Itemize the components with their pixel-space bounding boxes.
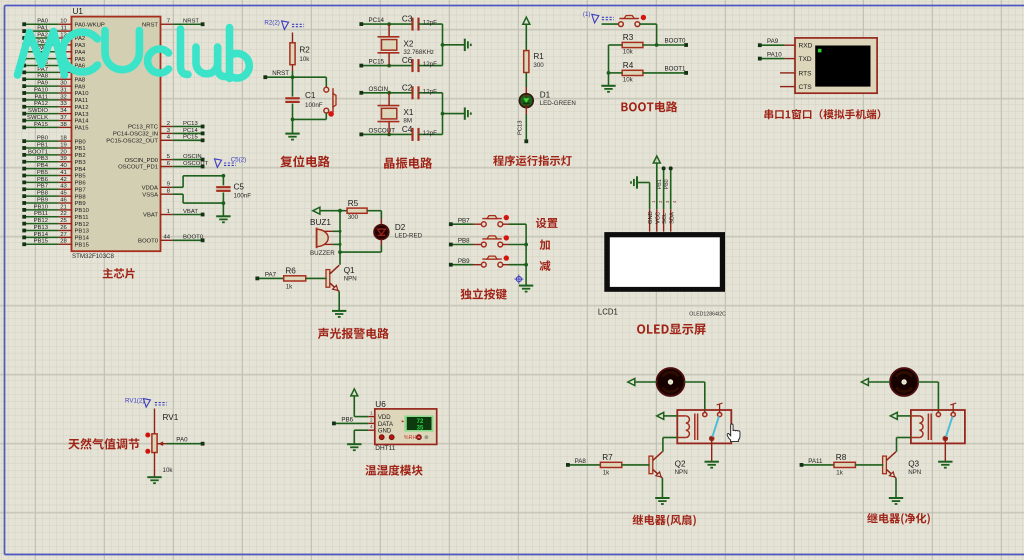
svg-text:Q2: Q2	[675, 459, 686, 468]
svg-text:PB5: PB5	[37, 170, 49, 176]
svg-text:VBAT: VBAT	[183, 209, 198, 215]
svg-text:LED-GREEN: LED-GREEN	[540, 100, 576, 107]
node PC14 junction	[387, 22, 391, 26]
terminal NRST wire	[263, 70, 326, 79]
U1 pin 15 PA5 wire/terminal PA5	[22, 53, 86, 63]
svg-text:PB8: PB8	[458, 238, 470, 245]
svg-text:PB7: PB7	[37, 184, 48, 190]
svg-text:44: 44	[163, 235, 170, 241]
svg-text:72: 72	[417, 419, 424, 425]
svg-text:PA12: PA12	[34, 101, 48, 107]
terminal PA10 wire	[758, 52, 785, 61]
terminal PA7 wire	[255, 271, 283, 280]
wire R5 to D2	[380, 211, 382, 226]
svg-text:25: 25	[60, 218, 67, 224]
wire keys ground rail	[525, 224, 527, 285]
svg-text:7: 7	[167, 19, 170, 25]
svg-text:PB1: PB1	[657, 179, 663, 189]
svg-text:37: 37	[60, 115, 67, 121]
svg-text:PB8: PB8	[75, 194, 87, 200]
node rail junction X2	[441, 43, 445, 47]
RV1 adjust buttons red dots	[145, 433, 150, 454]
ground below C1	[285, 133, 299, 135]
svg-text:1k: 1k	[603, 470, 610, 477]
transistor Q3	[883, 452, 922, 478]
svg-text:OSCOUT: OSCOUT	[183, 161, 209, 167]
svg-text:CTS: CTS	[799, 84, 813, 91]
svg-text:BOOT0: BOOT0	[665, 38, 687, 45]
annotation 复位电路	[280, 155, 330, 167]
svg-text:PB4: PB4	[37, 163, 49, 169]
capacitor C1	[285, 77, 322, 119]
U1 pin 46 PB9 wire/terminal PB9	[22, 197, 85, 207]
terminal PC14 wire	[359, 17, 412, 26]
svg-text:R7: R7	[602, 453, 613, 462]
wire vertical collector rail	[339, 211, 341, 265]
U1 pin 40 PB4 wire/terminal PB4	[22, 163, 86, 173]
svg-text:PB12: PB12	[34, 218, 48, 224]
relay body for 继电器(净化)	[911, 403, 965, 443]
svg-text:R8: R8	[836, 453, 847, 462]
svg-text:PB4: PB4	[75, 167, 87, 173]
terminal PA11 wire	[800, 458, 834, 467]
svg-text:4: 4	[370, 424, 373, 430]
ground below RV1	[147, 476, 161, 478]
svg-text:PA9: PA9	[37, 81, 48, 87]
wire power to motor	[635, 381, 657, 383]
svg-text:PB6: PB6	[37, 177, 49, 183]
terminal PA8 wire	[566, 458, 600, 467]
U1 pin 44 BOOT0 wire/terminal BOOT0	[138, 235, 204, 245]
svg-text:30: 30	[60, 81, 67, 87]
node OSCOUT junction	[387, 133, 391, 137]
U1 pin 25 PB12 wire/terminal PB12	[22, 218, 89, 228]
resistor R3	[609, 33, 685, 55]
terminal BOOT1	[665, 66, 689, 75]
svg-text:%RH: %RH	[404, 435, 417, 441]
U1 pin 27 PB14 wire/terminal PB14	[22, 232, 89, 242]
svg-text:Q3: Q3	[908, 459, 919, 468]
motor for 继电器(风扇)	[657, 368, 685, 396]
svg-text:PB3: PB3	[37, 156, 49, 162]
svg-text:PA15: PA15	[34, 122, 49, 128]
resistor R4	[609, 61, 685, 83]
wire relay coil bottom to transistor collector	[897, 438, 911, 452]
svg-text:10k: 10k	[623, 76, 634, 83]
wire Q2 emitter to ground	[661, 478, 663, 498]
svg-text:VCC: VCC	[655, 212, 661, 224]
svg-text:LCD1: LCD1	[598, 308, 618, 317]
reset push button (vertical)	[324, 87, 336, 116]
svg-text:32.768KHz: 32.768KHz	[403, 49, 434, 56]
svg-text:PA5: PA5	[75, 57, 86, 63]
U1 pin 1 VBAT wire/terminal VBAT	[143, 209, 204, 219]
wire power to motor	[868, 381, 890, 383]
svg-text:PB9: PB9	[458, 258, 470, 265]
svg-text:C2: C2	[402, 83, 413, 92]
U1 pin 5 OSCIN_PD0 wire/terminal OSCIN	[125, 154, 205, 164]
svg-text:10k: 10k	[623, 49, 634, 56]
svg-text:OSCOUT_PD1: OSCOUT_PD1	[118, 165, 158, 171]
watermark MCUclub	[18, 28, 250, 79]
svg-text:1k: 1k	[286, 283, 293, 290]
wire key PB8 to rail	[503, 244, 527, 246]
U1 pin 11 PA1 wire/terminal PA1	[22, 26, 85, 36]
op-amp U1 body (STM32F103C8 microcontroller)	[72, 17, 161, 252]
resistor R1	[524, 51, 545, 73]
resistor R8	[834, 453, 883, 477]
svg-text:X1: X1	[403, 108, 413, 117]
ground below C5	[216, 215, 230, 217]
svg-text:12pF: 12pF	[423, 130, 437, 137]
mouse hand cursor	[727, 424, 740, 442]
U1 pin 38 PA15 wire/terminal PA15	[22, 122, 89, 132]
U1 pin 42 PB6 wire/terminal PB6	[22, 177, 86, 187]
wire key PB7 to rail	[503, 223, 527, 225]
crystal X2	[378, 24, 435, 66]
U1 pin 10 PA0-WKUP wire/terminal PA0	[22, 19, 105, 29]
wire SCL to PB1	[657, 166, 666, 209]
svg-text:PC15-OSC32_OUT: PC15-OSC32_OUT	[106, 139, 158, 145]
U1 pin 29 PA8 wire/terminal PA8	[22, 74, 86, 84]
annotation 加	[540, 239, 550, 249]
push button key PB8	[481, 242, 486, 247]
wire rail to ground X1	[443, 113, 465, 115]
potentiometer RV1	[152, 409, 179, 477]
capacitor C3	[402, 15, 443, 31]
wire NRST to reset button	[325, 77, 327, 87]
svg-text:PA13: PA13	[75, 112, 90, 118]
svg-text:PB10: PB10	[75, 208, 90, 214]
svg-text:RTS: RTS	[799, 70, 813, 77]
svg-text:PB7: PB7	[75, 187, 86, 193]
U1 pin 19 PB1 wire/terminal PB1	[22, 142, 85, 152]
svg-text:PA11: PA11	[75, 98, 89, 104]
svg-text:100nF: 100nF	[234, 192, 252, 199]
motor for 继电器(净化)	[890, 368, 918, 396]
terminal OSCOUT wire	[359, 128, 412, 137]
svg-text:1: 1	[370, 411, 373, 417]
svg-text:42: 42	[60, 177, 67, 183]
node R3/button junction	[655, 43, 659, 47]
svg-text:DHT11: DHT11	[375, 445, 395, 452]
svg-text:R6: R6	[285, 267, 296, 276]
power terminal left of motor	[628, 379, 635, 386]
svg-text:10: 10	[60, 19, 67, 25]
svg-text:PA9: PA9	[75, 84, 86, 90]
svg-text:R5: R5	[348, 199, 359, 208]
svg-text:C6: C6	[402, 56, 413, 65]
node C5 bottom junction	[222, 201, 226, 205]
svg-text:10k: 10k	[163, 467, 174, 474]
ground right of X1	[464, 107, 466, 119]
svg-text:PB15: PB15	[34, 239, 49, 245]
svg-text:PB13: PB13	[34, 225, 49, 231]
power terminal above R1	[523, 17, 530, 24]
power terminal left of motor	[861, 379, 868, 386]
svg-text:C1: C1	[305, 91, 316, 100]
ground below Q2	[655, 497, 669, 499]
svg-text:22: 22	[60, 211, 67, 217]
svg-text:NPN: NPN	[675, 469, 688, 476]
svg-text:PB5: PB5	[75, 174, 87, 180]
svg-text:PA15: PA15	[75, 126, 90, 132]
svg-text:PC15: PC15	[369, 59, 385, 66]
U1 pin 32 PA11 wire/terminal PA11	[22, 94, 88, 104]
resistor R5	[347, 199, 381, 221]
origin marker blue crosshair	[514, 275, 523, 284]
U1 pin 16 PA6 wire/terminal PA6	[22, 60, 86, 70]
svg-text:D1: D1	[540, 91, 551, 100]
svg-text:(1): (1)	[583, 11, 591, 18]
svg-text:SWCLK: SWCLK	[27, 115, 48, 121]
svg-text:PA8: PA8	[575, 458, 587, 465]
svg-text:PC14: PC14	[183, 128, 198, 134]
U1 pin 30 PA9 wire/terminal PA9	[22, 81, 85, 91]
ground below relay pole	[705, 461, 719, 463]
node buzzer lower pin junction	[339, 243, 342, 246]
U1 pin 4 PC15-OSC32_OUT wire/terminal PC15	[106, 135, 204, 145]
svg-text:C4: C4	[402, 125, 413, 134]
ground left of OLED GND pin	[631, 176, 650, 209]
wire C1 bottom to ground	[292, 119, 294, 133]
terminal PB6 wire to DATA	[332, 416, 368, 425]
svg-text:PA0: PA0	[176, 437, 188, 444]
virtual terminal serial window body	[780, 38, 877, 93]
svg-text:PC14-OSC32_IN: PC14-OSC32_IN	[113, 132, 158, 138]
svg-text:28: 28	[60, 239, 67, 245]
svg-text:C3: C3	[402, 15, 413, 24]
ground right of X2	[464, 39, 466, 51]
svg-text:BUZ1: BUZ1	[310, 218, 331, 227]
diode D1 LED-GREEN	[519, 91, 575, 108]
terminal BOOT0	[665, 38, 689, 47]
node R5 left junction	[338, 209, 342, 213]
svg-text:X2: X2	[403, 39, 413, 48]
svg-text:PA4: PA4	[75, 50, 86, 56]
power terminal above DHT11 VDD	[351, 389, 368, 417]
svg-text:21: 21	[60, 204, 67, 210]
svg-text:SWDIO: SWDIO	[28, 108, 48, 114]
svg-text:19: 19	[60, 142, 67, 148]
svg-text:2: 2	[167, 121, 170, 127]
power terminal left of R5	[313, 207, 320, 214]
resistor R6	[284, 267, 327, 291]
node rail junction X1	[441, 112, 445, 116]
wire R1 to D1	[525, 73, 527, 95]
wire R3 left rail down	[608, 45, 610, 73]
annotation 串口1窗口（模拟手机端）	[764, 109, 880, 119]
terminal PC15 wire	[359, 59, 412, 68]
wire rail to ground	[608, 73, 610, 86]
transistor Q1	[326, 265, 357, 291]
svg-text:PA14: PA14	[75, 119, 90, 125]
U1 pin 12 PA2 wire/terminal PA2	[22, 32, 85, 42]
serial screen cursor	[818, 49, 822, 53]
wire relay pole to ground	[711, 440, 713, 461]
annotation OLED显示屏	[637, 324, 706, 335]
svg-text:PB1: PB1	[75, 146, 86, 152]
U1 pin 37 PA14 wire/terminal SWCLK	[22, 115, 89, 125]
svg-text:27: 27	[60, 232, 67, 238]
svg-text:26: 26	[60, 225, 67, 231]
svg-text:R4: R4	[623, 61, 634, 70]
svg-text:NPN: NPN	[344, 275, 357, 282]
resistor R7	[600, 453, 649, 477]
svg-text:PA8: PA8	[75, 77, 86, 83]
svg-text:PB3: PB3	[75, 160, 87, 166]
svg-text:PB2: PB2	[75, 153, 86, 159]
svg-text:45: 45	[60, 191, 67, 197]
svg-text:PA10: PA10	[34, 87, 49, 93]
svg-text:8M: 8M	[403, 118, 412, 125]
svg-text:NPN: NPN	[908, 469, 921, 476]
ground below Q1	[332, 310, 346, 312]
svg-text:PA7: PA7	[265, 271, 277, 278]
U1 pin 31 PA10 wire/terminal PA10	[22, 87, 89, 97]
wire rail right of C3/C6	[442, 24, 444, 66]
capacitor C2	[402, 83, 443, 99]
U1 pin 43 PB7 wire/terminal PB7	[22, 184, 85, 194]
U1 pin 45 PB8 wire/terminal PB8	[22, 191, 86, 201]
svg-text:100nF: 100nF	[305, 102, 323, 109]
svg-text:PA3: PA3	[75, 43, 86, 49]
svg-text:STM32F103C8: STM32F103C8	[72, 253, 115, 260]
U1 pin 8 VSSA wire to C5 bottom rail	[142, 189, 223, 204]
U1 pin 3 PC14-OSC32_IN wire/terminal PC14	[113, 128, 205, 138]
U1 pin 33 PA12 wire/terminal PA12	[22, 101, 88, 111]
svg-text:U6: U6	[375, 400, 386, 409]
wire Q1 emitter to ground	[338, 292, 340, 311]
svg-text:PA9: PA9	[767, 38, 779, 45]
U1 pin 14 PA4 wire/terminal PA4	[22, 46, 86, 56]
wire power to R5 junction	[320, 210, 347, 212]
terminal PB7 wire	[449, 217, 482, 226]
svg-text:PB14: PB14	[75, 236, 90, 242]
svg-text:PB13: PB13	[75, 229, 90, 235]
svg-text:PB0: PB0	[664, 179, 670, 189]
annotation BOOT电路	[621, 101, 677, 112]
serial window screen	[815, 46, 870, 87]
node NRST junction	[291, 75, 295, 79]
U1 pin 7 NRST wire/terminal NRST	[142, 19, 205, 29]
svg-text:PA12: PA12	[75, 105, 89, 111]
LCD1 OLED pin stubs and labels	[648, 200, 677, 232]
U1 pin 41 PB5 wire/terminal PB5	[22, 170, 86, 180]
svg-text:PB11: PB11	[34, 211, 48, 217]
svg-text:U1: U1	[73, 7, 84, 16]
node buzzer top pin junction	[339, 230, 342, 233]
svg-text:PC13_RTC: PC13_RTC	[128, 125, 159, 131]
annotation 程序运行指示灯	[493, 155, 572, 166]
wire to boot button left contact	[602, 23, 619, 25]
terminal PB8 wire	[449, 238, 482, 247]
svg-text:PB0: PB0	[75, 139, 87, 145]
node rail PB8 junction	[524, 243, 528, 247]
wire D1 to PC13 terminal	[518, 107, 527, 141]
svg-text:9: 9	[167, 182, 170, 188]
wire motor to relay common	[918, 382, 939, 413]
svg-text:20: 20	[60, 149, 67, 155]
node rail PB9 junction	[524, 263, 528, 267]
svg-text:PB0: PB0	[37, 136, 49, 142]
svg-text:PA0: PA0	[37, 19, 48, 25]
ground below R4 rail	[601, 85, 615, 87]
wire relay coil bottom to transistor collector	[663, 438, 677, 452]
svg-text:40: 40	[60, 163, 67, 169]
svg-text:PB8: PB8	[37, 191, 49, 197]
svg-text:R2(2): R2(2)	[264, 20, 279, 27]
svg-text:PA1: PA1	[37, 26, 48, 32]
svg-text:PA2: PA2	[75, 36, 86, 42]
svg-text:38: 38	[60, 122, 67, 128]
svg-text:BUZZER: BUZZER	[310, 250, 335, 257]
U1 pin 22 PB11 wire/terminal PB11	[22, 211, 88, 221]
annotation 晶振电路	[384, 157, 432, 169]
svg-text:PC13: PC13	[183, 121, 198, 127]
ground below keys rail	[519, 285, 533, 287]
svg-text:PB9: PB9	[75, 201, 86, 207]
svg-text:PB1: PB1	[37, 142, 48, 148]
svg-text:41: 41	[60, 170, 67, 176]
wire Q3 emitter to ground	[895, 478, 897, 498]
svg-text:46: 46	[60, 197, 67, 203]
wire C5 to ground	[222, 203, 224, 216]
svg-text:PC14: PC14	[369, 17, 385, 24]
terminal PC13 dot	[524, 139, 528, 143]
wire D2 to collector node	[340, 239, 381, 252]
node C1 bottom junction	[291, 118, 295, 122]
svg-text:BOOT1: BOOT1	[665, 66, 687, 73]
push button key PB9	[481, 262, 486, 267]
wire RV1 wiper to PA0	[167, 443, 202, 445]
svg-text:NRST: NRST	[142, 22, 158, 28]
annotation 天然气值调节	[68, 438, 139, 449]
svg-text:PB6: PB6	[75, 181, 87, 187]
svg-text:PB10: PB10	[34, 204, 49, 210]
svg-text:VDD: VDD	[378, 415, 391, 421]
svg-text:PA11: PA11	[808, 458, 823, 465]
terminal PB9 wire	[449, 258, 482, 267]
U1 pin 26 PB13 wire/terminal PB13	[22, 225, 89, 235]
push button key PB7	[481, 222, 486, 227]
U1 pin 39 PB3 wire/terminal PB3	[22, 156, 86, 166]
annotation 独立按键	[461, 288, 507, 299]
svg-text:12pF: 12pF	[423, 20, 437, 27]
svg-text:PA10: PA10	[767, 52, 782, 59]
svg-text:2: 2	[370, 417, 373, 423]
annotation 继电器(风扇)	[633, 514, 696, 526]
svg-text:1k: 1k	[836, 470, 843, 477]
svg-text:10k: 10k	[299, 56, 310, 63]
svg-text:SCL: SCL	[662, 212, 668, 224]
wire key PB9 to rail	[503, 264, 527, 266]
terminal PA0 dot	[176, 437, 204, 446]
U1 pin 13 PA3 wire/terminal PA3	[22, 39, 86, 49]
svg-text:39: 39	[60, 156, 67, 162]
svg-text:VBAT: VBAT	[143, 213, 158, 219]
svg-text:PC15: PC15	[183, 135, 198, 141]
svg-text:D2: D2	[395, 223, 406, 232]
svg-text:PB15: PB15	[75, 242, 90, 248]
power terminal left of relay coil	[890, 412, 911, 419]
annotation 减	[540, 260, 551, 271]
U1 pin 18 PB0 wire/terminal PB0	[22, 136, 86, 146]
svg-text:R2: R2	[299, 46, 310, 55]
power terminal left of relay coil	[657, 412, 678, 419]
U1 pin 2 PC13_RTC wire/terminal PC13	[128, 121, 205, 131]
svg-text:RXD: RXD	[799, 43, 813, 50]
